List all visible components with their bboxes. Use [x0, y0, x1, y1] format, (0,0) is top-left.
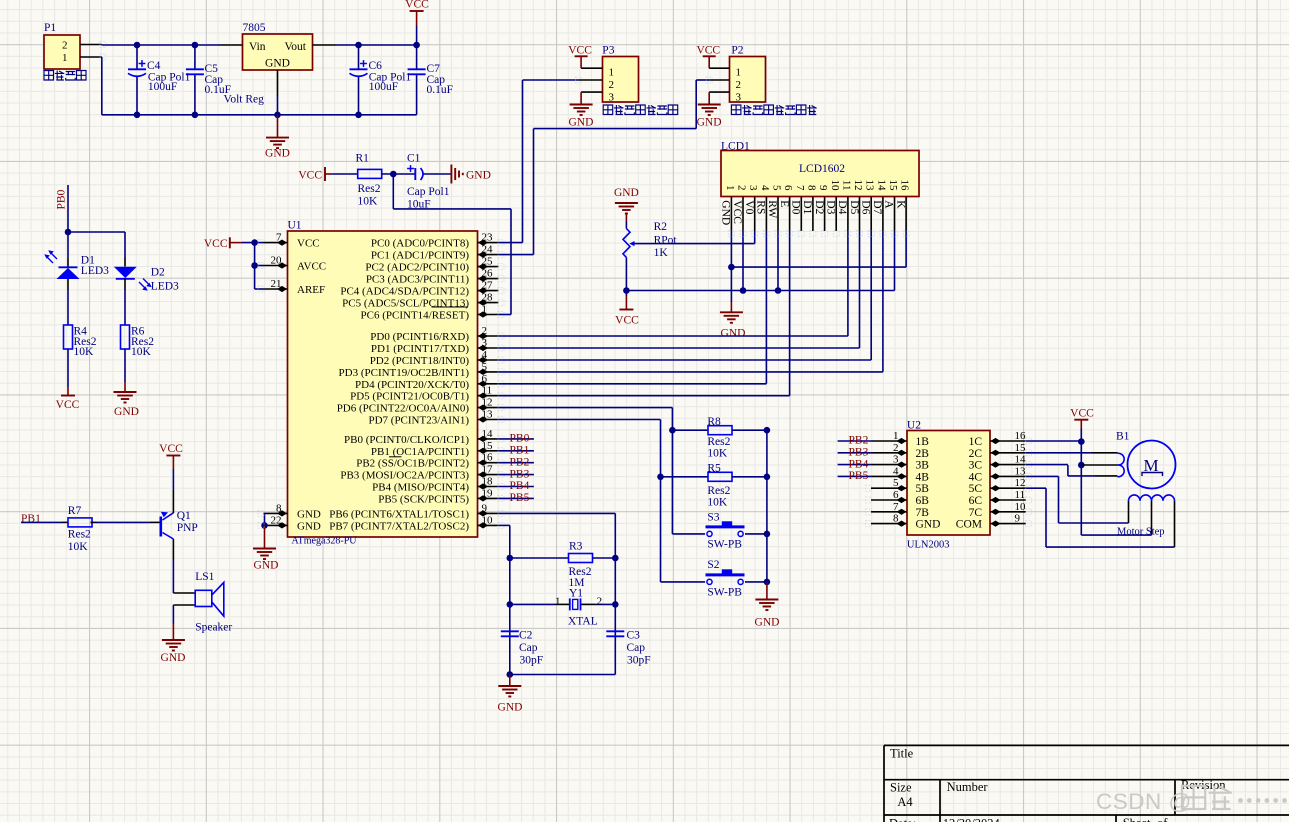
svg-text:11: 11 [840, 180, 852, 191]
svg-text:PB4 (MISO/PCINT4): PB4 (MISO/PCINT4) [372, 482, 469, 494]
svg-text:VCC: VCC [696, 45, 720, 57]
svg-text:U2: U2 [907, 419, 921, 431]
svg-text:3: 3 [482, 337, 488, 349]
svg-text:V0: V0 [743, 200, 755, 214]
svg-text:10: 10 [1015, 501, 1027, 513]
svg-text:GND: GND [721, 328, 746, 340]
svg-text:0.1uF: 0.1uF [427, 84, 454, 96]
svg-text:10K: 10K [68, 541, 89, 553]
svg-text:Res2: Res2 [68, 529, 91, 541]
svg-text:PC6 (PCINT14/RESET): PC6 (PCINT14/RESET) [361, 310, 470, 322]
svg-text:17: 17 [482, 464, 494, 476]
svg-text:SW-PB: SW-PB [707, 586, 742, 598]
svg-text:11: 11 [1015, 489, 1026, 501]
svg-text:C3: C3 [627, 629, 641, 641]
svg-text:25: 25 [482, 256, 494, 268]
svg-text:D1: D1 [801, 200, 813, 214]
svg-text:VCC: VCC [1070, 408, 1094, 420]
svg-text:PD7 (PCINT23/AIN1): PD7 (PCINT23/AIN1) [368, 415, 469, 427]
svg-text:D2: D2 [813, 200, 825, 214]
svg-text:LED3: LED3 [151, 280, 179, 292]
svg-text:ATmega328-PU: ATmega328-PU [292, 536, 358, 547]
svg-text:13: 13 [1015, 465, 1027, 477]
svg-text:VCC: VCC [405, 0, 429, 11]
svg-text:PB4: PB4 [849, 458, 869, 470]
svg-text:100uF: 100uF [148, 81, 177, 93]
svg-text:LCD1: LCD1 [721, 141, 750, 153]
svg-text:Q1: Q1 [177, 510, 191, 522]
svg-text:VCC: VCC [731, 200, 743, 224]
svg-text:1: 1 [893, 430, 899, 442]
svg-text:RW: RW [766, 200, 778, 218]
svg-text:7: 7 [794, 185, 806, 191]
svg-text:A4: A4 [897, 795, 913, 809]
svg-text:14: 14 [1015, 454, 1027, 466]
svg-text:SW-PB: SW-PB [707, 538, 742, 550]
svg-text:Speaker: Speaker [195, 622, 232, 634]
svg-text:4B: 4B [916, 471, 930, 483]
svg-text:3: 3 [893, 454, 899, 466]
svg-text:2B: 2B [916, 448, 930, 460]
svg-text:3B: 3B [916, 460, 930, 472]
svg-text:K: K [894, 200, 906, 209]
svg-text:7: 7 [893, 501, 899, 513]
svg-text:S3: S3 [707, 512, 719, 524]
svg-text:2: 2 [736, 185, 748, 191]
svg-text:VCC: VCC [159, 443, 183, 455]
svg-text:AVCC: AVCC [297, 261, 326, 273]
svg-text:PB6 (PCINT6/XTAL1/TOSC1): PB6 (PCINT6/XTAL1/TOSC1) [329, 508, 469, 520]
svg-text:12/30/2024: 12/30/2024 [943, 817, 1001, 822]
svg-text:2: 2 [62, 40, 68, 52]
svg-text:PB5 (SCK/PCINT5): PB5 (SCK/PCINT5) [378, 493, 469, 505]
svg-text:30pF: 30pF [520, 654, 544, 666]
svg-text:4: 4 [759, 185, 771, 191]
svg-text:S2: S2 [707, 559, 719, 571]
svg-text:10K: 10K [707, 448, 728, 460]
svg-text:Sheet: Sheet [1123, 816, 1151, 822]
svg-text:16: 16 [899, 180, 911, 192]
svg-text:Date:: Date: [889, 817, 916, 822]
svg-text:VCC: VCC [297, 238, 320, 250]
svg-text:12: 12 [482, 397, 493, 409]
svg-text:GND: GND [755, 617, 780, 629]
svg-text:PB1: PB1 [510, 445, 530, 457]
svg-text:2: 2 [893, 442, 899, 454]
svg-text:C6: C6 [369, 60, 383, 72]
svg-text:5: 5 [771, 185, 783, 191]
svg-text:10K: 10K [74, 346, 95, 358]
svg-text:15: 15 [482, 440, 494, 452]
svg-text:D5: D5 [848, 200, 860, 214]
svg-text:6: 6 [782, 185, 794, 191]
svg-text:10: 10 [482, 514, 494, 526]
svg-text:7: 7 [276, 232, 282, 244]
svg-text:Cap: Cap [519, 642, 538, 654]
svg-text:PC3 (ADC3/PCINT11): PC3 (ADC3/PCINT11) [366, 274, 470, 286]
svg-text:10: 10 [829, 180, 841, 192]
svg-text:C4: C4 [147, 60, 161, 72]
svg-text:PD6 (PCINT22/OC0A/AIN0): PD6 (PCINT22/OC0A/AIN0) [337, 403, 470, 415]
svg-text:PB3 (MOSI/OC2A/PCINT3): PB3 (MOSI/OC2A/PCINT3) [340, 470, 469, 482]
svg-text:Vin: Vin [249, 41, 266, 53]
svg-text:Y1: Y1 [569, 587, 583, 599]
svg-text:1: 1 [555, 595, 561, 607]
svg-text:4C: 4C [969, 471, 983, 483]
svg-text:PB1 (OC1A/PCINT1): PB1 (OC1A/PCINT1) [371, 446, 469, 458]
svg-text:COM: COM [956, 519, 982, 531]
svg-text:PD4 (PCINT20/XCK/T0): PD4 (PCINT20/XCK/T0) [355, 379, 469, 391]
svg-text:5: 5 [482, 361, 488, 373]
svg-text:R1: R1 [356, 153, 370, 165]
svg-text:PB5: PB5 [849, 470, 869, 482]
svg-text:8: 8 [276, 502, 282, 514]
svg-text:D3: D3 [825, 200, 837, 214]
svg-text:U1: U1 [288, 220, 302, 232]
svg-text:GND: GND [466, 170, 491, 182]
svg-text:23: 23 [482, 232, 494, 244]
svg-text:R3: R3 [569, 541, 583, 553]
svg-text:PB2 (SS/OC1B/PCINT2): PB2 (SS/OC1B/PCINT2) [356, 458, 469, 470]
svg-text:9: 9 [1015, 513, 1021, 525]
svg-text:5C: 5C [969, 483, 983, 495]
svg-text:3: 3 [736, 91, 742, 103]
svg-text:Number: Number [947, 780, 989, 794]
svg-text:10K: 10K [358, 196, 379, 208]
svg-text:PB7 (PCINT7/XTAL2/TOSC2): PB7 (PCINT7/XTAL2/TOSC2) [329, 520, 469, 532]
svg-text:PD0 (PCINT16/RXD): PD0 (PCINT16/RXD) [370, 331, 469, 343]
svg-text:5B: 5B [916, 483, 930, 495]
svg-text:3: 3 [747, 185, 759, 191]
svg-text:24: 24 [482, 244, 494, 256]
svg-text:GND: GND [614, 187, 639, 199]
svg-text:6B: 6B [916, 495, 930, 507]
svg-text:30pF: 30pF [627, 654, 651, 666]
svg-text:GND: GND [254, 560, 279, 572]
svg-text:4: 4 [893, 465, 899, 477]
svg-text:C2: C2 [519, 629, 533, 641]
svg-text:XTAL: XTAL [568, 616, 598, 628]
svg-text:PD5 (PCINT21/OC0B/T1): PD5 (PCINT21/OC0B/T1) [350, 391, 469, 403]
svg-text:PB1: PB1 [21, 513, 41, 525]
svg-text:PB5: PB5 [510, 492, 530, 504]
svg-text:PB2: PB2 [510, 456, 530, 468]
svg-text:PC0 (ADC0/PCINT8): PC0 (ADC0/PCINT8) [371, 238, 469, 250]
svg-text:AREF: AREF [297, 284, 325, 296]
svg-text:Size: Size [890, 781, 912, 795]
svg-text:R7: R7 [68, 505, 82, 517]
svg-text:of: of [1157, 816, 1168, 822]
svg-text:RPot: RPot [654, 234, 678, 246]
svg-text:PB0: PB0 [510, 433, 530, 445]
svg-text:PB2: PB2 [849, 435, 869, 447]
svg-text:20: 20 [271, 255, 283, 267]
svg-text:GND: GND [569, 117, 594, 129]
svg-text:28: 28 [482, 292, 494, 304]
svg-text:7B: 7B [916, 507, 930, 519]
svg-text:8: 8 [805, 185, 817, 191]
svg-text:VCC: VCC [56, 399, 80, 411]
svg-text:Res2: Res2 [707, 485, 730, 497]
svg-text:1: 1 [736, 67, 742, 79]
svg-text:3C: 3C [969, 460, 983, 472]
svg-text:Title: Title [890, 746, 914, 760]
svg-text:R2: R2 [654, 221, 668, 233]
svg-text:Cap: Cap [627, 642, 646, 654]
svg-text:PC4 (ADC4/SDA/PCINT12): PC4 (ADC4/SDA/PCINT12) [340, 286, 469, 298]
svg-text:GND: GND [161, 652, 186, 664]
svg-text:P3: P3 [602, 45, 614, 57]
svg-text:1: 1 [482, 304, 488, 316]
svg-text:15: 15 [887, 180, 899, 192]
svg-text:PC5 (ADC5/SCL/PCINT13): PC5 (ADC5/SCL/PCINT13) [342, 298, 469, 310]
svg-text:E: E [778, 200, 790, 207]
svg-text:5: 5 [893, 477, 899, 489]
svg-text:Res2: Res2 [707, 436, 730, 448]
svg-text:6C: 6C [969, 495, 983, 507]
svg-text:2: 2 [736, 79, 742, 91]
svg-text:16: 16 [1015, 430, 1027, 442]
svg-text:2: 2 [482, 325, 488, 337]
svg-text:1: 1 [724, 185, 736, 191]
svg-text:R8: R8 [707, 416, 721, 428]
svg-text:GND: GND [916, 519, 941, 531]
svg-text:12: 12 [852, 180, 864, 191]
svg-text:16: 16 [482, 452, 494, 464]
svg-text:VCC: VCC [615, 315, 639, 327]
svg-text:15: 15 [1015, 442, 1027, 454]
svg-text:PB3: PB3 [510, 468, 530, 480]
svg-text:Res2: Res2 [569, 566, 592, 578]
svg-text:GND: GND [297, 520, 321, 532]
svg-text:1C: 1C [969, 436, 983, 448]
svg-text:PB4: PB4 [510, 480, 530, 492]
svg-text:14: 14 [482, 428, 494, 440]
svg-text:14: 14 [875, 180, 887, 192]
svg-text:P2: P2 [731, 45, 743, 57]
svg-text:GND: GND [498, 702, 523, 714]
svg-text:2: 2 [609, 79, 615, 91]
svg-text:1: 1 [609, 67, 615, 79]
svg-text:18: 18 [482, 476, 494, 488]
svg-text:Vout: Vout [284, 41, 306, 53]
svg-text:1K: 1K [654, 247, 669, 259]
svg-text:D6: D6 [859, 200, 871, 214]
svg-text:Cap Pol1: Cap Pol1 [407, 186, 450, 198]
svg-text:22: 22 [271, 514, 282, 526]
svg-text:12: 12 [1015, 477, 1026, 489]
svg-text:7805: 7805 [243, 22, 266, 34]
svg-text:10K: 10K [707, 497, 728, 509]
svg-text:D4: D4 [836, 200, 848, 214]
svg-text:27: 27 [482, 280, 494, 292]
svg-text:D2: D2 [151, 267, 165, 279]
svg-text:VCC: VCC [298, 169, 322, 181]
svg-text:9: 9 [482, 502, 488, 514]
svg-text:PD2 (PCINT18/INT0): PD2 (PCINT18/INT0) [370, 355, 470, 367]
svg-text:GND: GND [697, 117, 722, 129]
svg-text:21: 21 [271, 278, 282, 290]
svg-text:11: 11 [482, 385, 493, 397]
svg-text:D7: D7 [871, 200, 883, 214]
svg-text:C1: C1 [407, 153, 421, 165]
svg-text:2: 2 [597, 595, 603, 607]
svg-text:PC2 (ADC2/PCINT10): PC2 (ADC2/PCINT10) [365, 262, 469, 274]
svg-text:ULN2003: ULN2003 [907, 540, 950, 551]
svg-text:D0: D0 [790, 200, 802, 214]
svg-text:9: 9 [817, 185, 829, 191]
svg-text:A: A [883, 200, 895, 209]
svg-text:LS1: LS1 [195, 571, 214, 583]
svg-text:VCC: VCC [568, 45, 592, 57]
svg-text:PNP: PNP [177, 522, 198, 534]
svg-text:8: 8 [893, 513, 899, 525]
svg-text:VCC: VCC [204, 238, 228, 250]
svg-text:26: 26 [482, 268, 494, 280]
svg-text:0.1uF: 0.1uF [205, 84, 232, 96]
svg-text:3: 3 [609, 91, 615, 103]
svg-text:6: 6 [482, 373, 488, 385]
svg-text:P1: P1 [44, 22, 56, 34]
svg-text:LCD1602: LCD1602 [799, 163, 845, 175]
svg-text:PC1 (ADC1/PCINT9): PC1 (ADC1/PCINT9) [371, 250, 469, 262]
svg-text:CSDN @: CSDN @ [1096, 789, 1192, 814]
svg-text:1B: 1B [916, 436, 930, 448]
svg-text:PB0 (PCINT0/CLKO/ICP1): PB0 (PCINT0/CLKO/ICP1) [344, 434, 469, 446]
svg-text:100uF: 100uF [369, 81, 398, 93]
svg-text:13: 13 [482, 409, 494, 421]
svg-text:13: 13 [864, 180, 876, 192]
svg-text:6: 6 [893, 489, 899, 501]
svg-text:Res2: Res2 [358, 183, 381, 195]
svg-text:RS: RS [755, 200, 767, 214]
svg-text:LED3: LED3 [81, 265, 109, 277]
svg-text:GND: GND [720, 200, 732, 225]
svg-text:10uF: 10uF [407, 199, 431, 211]
svg-text:R5: R5 [707, 463, 721, 475]
svg-text:19: 19 [482, 487, 494, 499]
svg-text:GND: GND [297, 508, 321, 520]
svg-text:GND: GND [265, 58, 290, 70]
svg-text:PB0: PB0 [56, 189, 68, 209]
svg-text:PD3 (PCINT19/OC2B/INT1): PD3 (PCINT19/OC2B/INT1) [339, 367, 470, 379]
svg-text:2C: 2C [969, 448, 983, 460]
svg-text:7C: 7C [969, 507, 983, 519]
svg-text:4: 4 [482, 349, 488, 361]
svg-text:Motor Step: Motor Step [1117, 526, 1165, 537]
svg-text:GND: GND [265, 148, 290, 160]
svg-text:PB3: PB3 [849, 447, 869, 459]
svg-text:1: 1 [62, 52, 68, 64]
svg-text:B1: B1 [1116, 430, 1130, 442]
svg-text:GND: GND [114, 406, 139, 418]
svg-text:10K: 10K [131, 346, 152, 358]
svg-text:PD1 (PCINT17/TXD): PD1 (PCINT17/TXD) [371, 343, 469, 355]
